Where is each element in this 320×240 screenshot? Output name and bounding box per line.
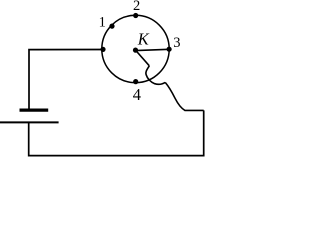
svg-text:4: 4 (133, 85, 141, 104)
node: contact 4 dot (133, 79, 138, 84)
battery B1 short thick plate (negative) (20, 108, 49, 111)
node: left contact dot (100, 47, 105, 52)
node: center pivot dot (133, 48, 138, 53)
node: contact 2 dot (133, 13, 138, 18)
wire: from battery long plate down, along bottom, up right side to switch ledge (29, 110, 204, 155)
svg-text:1: 1 (99, 14, 106, 30)
rotary switch dial circle (102, 15, 169, 82)
flexible lead squiggle (146, 66, 165, 84)
node: contact 1 dot (109, 24, 114, 29)
svg-text:K: K (137, 30, 150, 49)
wire: top wire from battery corner to circle left contact (29, 50, 103, 109)
wire: diagonal lead from squiggle to bottom-right ledge (165, 82, 204, 110)
battery B1 long thin plate (positive) (0, 121, 59, 123)
svg-text:3: 3 (173, 35, 180, 51)
node: contact 3 dot (167, 47, 172, 52)
switch arm from center pivot to contact 3 (136, 49, 170, 50)
svg-text:2: 2 (133, 0, 140, 14)
switch arm diagonal from center pivot (136, 50, 150, 66)
